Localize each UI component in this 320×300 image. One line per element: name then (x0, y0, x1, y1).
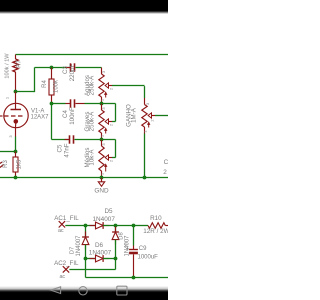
label C9 value (138, 254, 159, 260)
label GND (94, 187, 109, 194)
pin 2 Medios (109, 159, 114, 162)
status bar (black, top) (0, 0, 168, 14)
label ac pin AC2 (59, 274, 65, 280)
node C4 row junction (100, 102, 104, 106)
node D6 right (114, 257, 118, 261)
wire B+ top rail (16, 54, 169, 56)
label Medios (84, 148, 96, 168)
resistor R4 100k (49, 68, 54, 104)
label C3 value (69, 64, 76, 82)
nav recents square (117, 286, 127, 295)
label C3 name (62, 65, 69, 73)
wire D7 anode down (85, 259, 87, 278)
node R3 bottom (14, 176, 18, 180)
pin 2 Agudos (109, 87, 114, 90)
diode D8 1N4007 (112, 226, 119, 259)
net flag AC2_FIL (63, 266, 69, 272)
node Vplus D8 (114, 224, 118, 228)
wire Graves wiper branch (102, 104, 116, 122)
node cathode junction (14, 150, 18, 154)
label R7 name (17, 60, 23, 68)
label R10 name (150, 215, 162, 222)
net flag AC1_FIL (59, 221, 65, 227)
label C5 name (57, 144, 64, 152)
wire to R10 (134, 225, 149, 227)
node Medios bottom (100, 176, 104, 180)
label D5 value (93, 216, 116, 223)
wire R4 to C5 (52, 104, 69, 140)
label D7 value (76, 235, 82, 257)
wire ground rail (0, 177, 168, 179)
capacitor C5 47nF (65, 135, 102, 143)
node plate junction (14, 90, 18, 94)
wire cathode row (0, 151, 16, 153)
diode D5 1N4007 (90, 222, 110, 229)
wire AC1 to D5 (65, 225, 95, 227)
wire bottom rail (86, 277, 169, 279)
label D5 name (104, 208, 113, 215)
wire D5 to node (103, 225, 133, 227)
wire GANHO bottom (144, 134, 146, 178)
capacitor C4 100nF (52, 99, 102, 107)
pin 3 Graves (101, 107, 106, 110)
label V1-A (31, 109, 44, 115)
pin 1 Graves (99, 134, 104, 137)
label R4 name (42, 80, 48, 88)
label R3 value (17, 159, 23, 169)
label D6 name (95, 242, 104, 249)
resistor R10 12R/2W (148, 223, 168, 229)
wire cathode (15, 128, 17, 152)
pin 2 Graves (109, 123, 114, 126)
label D8 name (118, 232, 124, 239)
node R4 bottom (50, 102, 54, 106)
label D6 value (89, 249, 112, 256)
node R4 top (50, 66, 54, 70)
label D8 value (124, 235, 130, 257)
resistor fragment left edge (0, 162, 4, 168)
label C9 plus (126, 247, 129, 253)
node D6 left (84, 257, 88, 261)
resistor R3 1k5 (13, 152, 18, 178)
wire Agudos wiper to GANHO (112, 86, 145, 99)
label ac pin AC1 (58, 228, 64, 234)
wire AC2 to bridge (69, 259, 115, 270)
node AC1 junction (84, 224, 88, 228)
potentiometer Medios 10k-A (99, 140, 112, 178)
potentiometer Graves 250k-A (99, 104, 112, 140)
label R3 name (3, 160, 9, 168)
wire D6 right (103, 258, 115, 260)
pin 1 Agudos (99, 98, 104, 101)
wire GANHO wiper out (155, 115, 168, 117)
pin 3 GANHO (145, 102, 150, 105)
label C4 value (69, 107, 76, 125)
capacitor C3 220pF (66, 63, 102, 71)
label AC1_FIL (54, 215, 79, 222)
capacitor C9 1000uF (129, 226, 138, 278)
diode D6 1N4007 (90, 255, 110, 262)
label R10 value (143, 228, 169, 235)
node C9 bottom (132, 276, 136, 280)
wire Medios wiper branch (102, 140, 116, 158)
node GANHO bottom (143, 176, 147, 180)
node Vplus C9 (132, 224, 136, 228)
label C4 name (62, 109, 69, 117)
nav home circle (79, 287, 87, 295)
label D7 name (70, 247, 76, 254)
label Graves (84, 111, 96, 132)
wire plate to C3 row (16, 68, 70, 93)
pin 1 tube (5, 96, 10, 99)
nav back triangle (51, 287, 61, 294)
pin 2 C9 (125, 242, 128, 247)
triode V1-A 12AX7 (0, 92, 28, 128)
wire D6 left (86, 258, 96, 260)
potentiometer Agudos 250k-A (99, 68, 112, 104)
pin 1 GANHO (143, 130, 148, 133)
pin 3 Medios (101, 143, 106, 146)
diode D7 1N4007 (82, 226, 89, 259)
pin 3 tube (8, 135, 13, 138)
pin 3 Agudos (101, 70, 106, 73)
android navigation bar (bottom) (0, 286, 168, 300)
ground GND (98, 178, 104, 187)
label AC2_FIL (54, 260, 79, 267)
node C5 row junction (100, 138, 104, 142)
label R4 value (54, 79, 60, 93)
label 12AX7 (31, 114, 50, 120)
label Agudos (84, 75, 96, 96)
potentiometer GANHO 1M-A (142, 98, 155, 134)
label C9 name (139, 246, 147, 252)
resistor R7 100k/1W (13, 55, 18, 92)
pin 1 Medios (99, 172, 104, 175)
label R7 value (5, 53, 11, 79)
pin 2 GANHO (150, 119, 155, 122)
label C5 value (63, 143, 70, 157)
label cut text right edge (163, 159, 168, 176)
schematic canvas (0, 0, 168, 300)
label GANHO (126, 104, 138, 127)
